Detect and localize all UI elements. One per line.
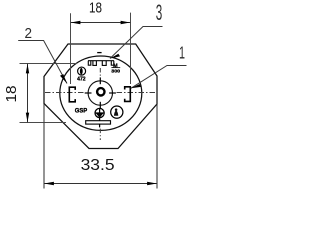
svg-text:1: 1 [179,42,185,62]
svg-text:300: 300 [111,68,120,73]
svg-text:33.5: 33.5 [81,157,115,174]
left keyway slot [69,87,75,102]
certification icon top-left [77,67,86,82]
bottom dimension 33.5 [44,104,157,189]
svg-text:3: 3 [156,0,163,25]
left dimension 18 [3,64,77,123]
circled icon bottom-right [111,106,123,118]
vertical centerline [99,68,101,140]
small dash above circle [97,52,101,54]
right keyway slot [125,87,131,102]
label 2 with leader [18,25,67,84]
label 3 with leader [110,0,163,58]
ground symbol [95,108,105,127]
label 1 with leader [131,42,187,88]
knurled center nut [97,88,104,95]
octagonal mounting plate outline [44,44,157,149]
M/300 marking [111,63,120,73]
bottom slot rectangle [86,121,111,124]
center tick marks [85,77,116,108]
top T-slot window [88,61,114,66]
svg-text:18: 18 [89,1,102,17]
svg-text:18: 18 [3,86,20,103]
svg-text:472: 472 [77,76,86,82]
horizontal centerline [45,92,157,94]
svg-text:2: 2 [25,25,33,42]
receptacle body ellipse [60,56,142,130]
svg-text:GSP: GSP [75,108,88,115]
top dimension 18 [71,1,131,85]
center pilot circle [88,81,112,105]
